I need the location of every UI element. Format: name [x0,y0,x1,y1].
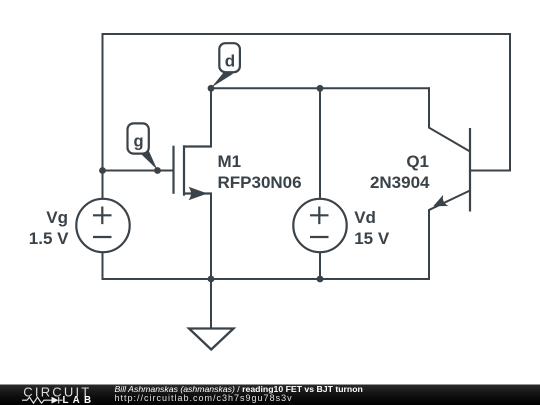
wire Vg bottom stub [102,252,104,280]
node Vd top junction [317,85,324,92]
wire d bus horizontal [210,87,430,89]
voltage source Vd circle [293,199,346,252]
transistor M1 NMOS [174,145,213,195]
transistor Q1 emitter arrow [431,195,449,212]
node junction Vg/gate bus [99,167,106,174]
svg-text:M1: M1 [218,152,242,171]
wire ground stub vertical [210,278,212,329]
svg-text:Vd: Vd [354,208,376,227]
wire bottom ground bus [102,278,431,280]
wire M1 drain vertical [210,87,212,147]
transistor M1 source arrow [189,187,208,200]
transistor Q1 NPN (mirrored) [429,127,470,211]
wire gate bus from Vg node to M1 gate [102,170,174,172]
svg-text:2N3904: 2N3904 [370,173,430,192]
node ground junction (M1 source) [208,276,215,283]
svg-text:15 V: 15 V [354,229,390,248]
svg-text:Q1: Q1 [406,152,429,171]
ground symbol [189,329,234,350]
CircuitLab logo resistor-diode squiggle [22,397,63,404]
node label g callout [128,123,158,169]
wire left vertical from top bus down to Vg + [102,33,104,199]
wire Vd bottom stub [319,252,321,280]
svg-text:RFP30N06: RFP30N06 [218,173,302,192]
svg-text:1.5 V: 1.5 V [29,229,69,248]
wire right vertical down to Q1 base lead [509,33,511,171]
wire Vd top stub [319,87,321,199]
wire Q1 base lead horizontal [470,170,511,172]
wire Q1 collector vertical [428,87,430,128]
node Vd bottom junction [317,276,324,283]
node g attach point [154,167,161,174]
node label d callout [211,43,240,87]
svg-text:d: d [225,52,235,71]
voltage source Vg circle [76,199,129,252]
wire M1 source vertical [210,193,212,281]
svg-text:http://circuitlab.com/c3h7s9gu: http://circuitlab.com/c3h7s9gu78s3v [115,393,293,403]
node d junction (M1 drain) [208,85,215,92]
svg-text:Vg: Vg [46,208,68,227]
wire top horizontal bus [102,33,512,35]
footer bar [0,385,540,405]
wire Q1 emitter vertical [428,210,430,281]
svg-text:LAB: LAB [63,395,96,405]
svg-text:g: g [134,133,144,151]
